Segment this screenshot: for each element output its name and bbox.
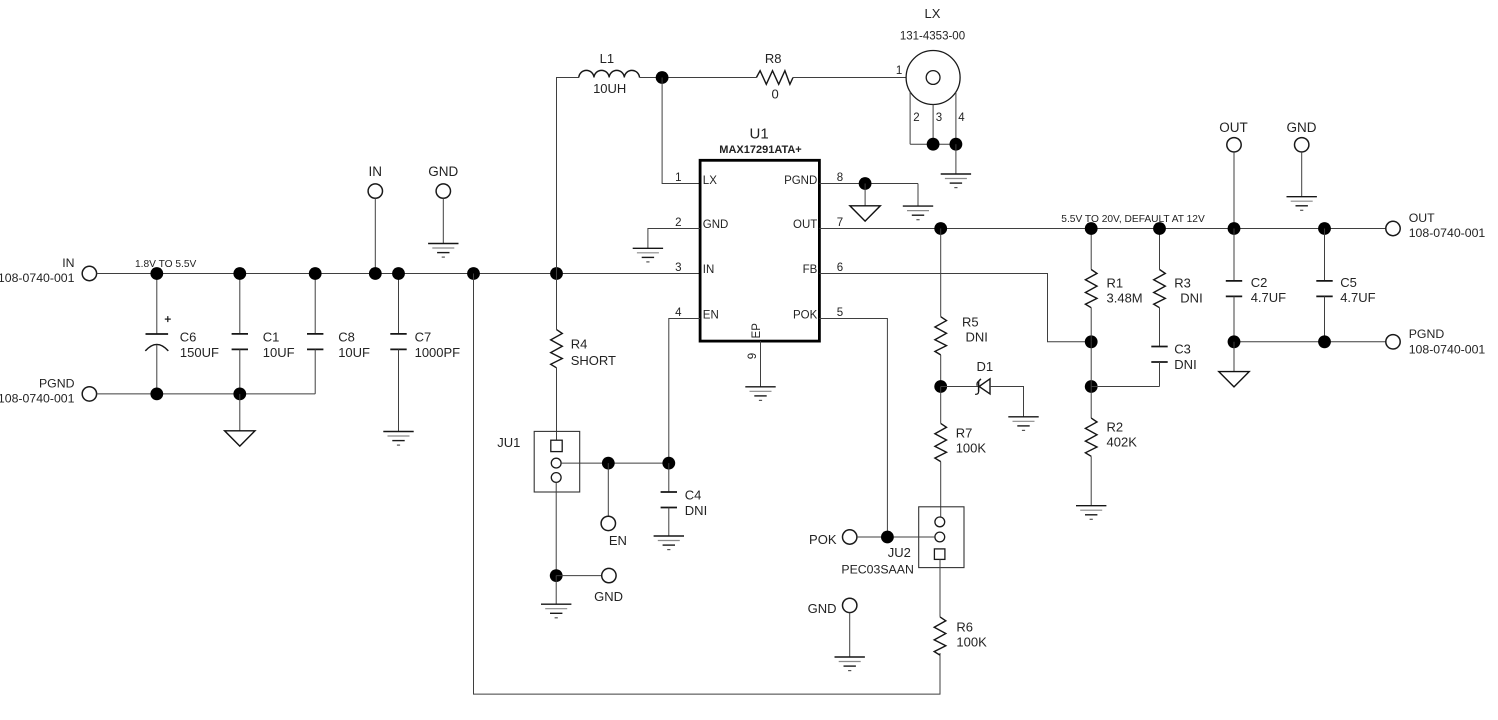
- svg-text:402K: 402K: [1107, 435, 1138, 450]
- svg-text:DNI: DNI: [685, 503, 707, 518]
- svg-text:GND: GND: [808, 601, 837, 616]
- svg-text:2: 2: [913, 112, 919, 124]
- svg-text:6: 6: [837, 262, 843, 274]
- svg-text:9: 9: [747, 353, 759, 359]
- svg-text:GND: GND: [1287, 120, 1317, 135]
- svg-text:PGND: PGND: [784, 175, 817, 187]
- svg-text:LX: LX: [925, 6, 941, 21]
- svg-text:108-0740-001: 108-0740-001: [1409, 342, 1486, 356]
- svg-text:108-0740-001: 108-0740-001: [1409, 226, 1486, 240]
- svg-text:3: 3: [936, 112, 942, 124]
- svg-text:POK: POK: [793, 310, 818, 322]
- svg-text:EP: EP: [751, 323, 763, 339]
- svg-text:POK: POK: [809, 532, 837, 547]
- svg-text:IN: IN: [62, 256, 74, 270]
- svg-text:MAX17291ATA+: MAX17291ATA+: [719, 144, 801, 156]
- svg-text:1: 1: [675, 172, 681, 184]
- svg-text:C6: C6: [180, 330, 197, 345]
- svg-text:GND: GND: [428, 164, 458, 179]
- svg-text:100K: 100K: [956, 635, 987, 650]
- svg-text:5: 5: [837, 307, 843, 319]
- svg-text:OUT: OUT: [1219, 120, 1248, 135]
- svg-text:C1: C1: [263, 330, 280, 345]
- svg-text:10UF: 10UF: [338, 345, 370, 360]
- svg-text:3: 3: [675, 262, 681, 274]
- svg-text:150UF: 150UF: [180, 345, 219, 360]
- svg-text:1: 1: [896, 65, 902, 77]
- svg-text:JU1: JU1: [497, 435, 520, 450]
- svg-text:SHORT: SHORT: [571, 353, 616, 368]
- svg-text:4: 4: [675, 307, 682, 319]
- svg-text:R6: R6: [956, 620, 973, 635]
- svg-text:FB: FB: [803, 264, 818, 276]
- svg-text:108-0740-001: 108-0740-001: [0, 391, 75, 405]
- svg-text:4: 4: [958, 112, 965, 124]
- svg-text:C4: C4: [685, 488, 702, 503]
- svg-text:8: 8: [837, 172, 843, 184]
- svg-text:DNI: DNI: [966, 329, 988, 344]
- svg-text:4.7UF: 4.7UF: [1340, 290, 1375, 305]
- svg-text:OUT: OUT: [793, 219, 817, 231]
- svg-text:7: 7: [837, 217, 843, 229]
- svg-text:DNI: DNI: [1174, 357, 1196, 372]
- svg-text:R2: R2: [1107, 420, 1124, 435]
- svg-text:10UH: 10UH: [593, 81, 626, 96]
- svg-text:3.48M: 3.48M: [1107, 291, 1143, 306]
- svg-text:C8: C8: [338, 330, 355, 345]
- svg-text:LX: LX: [703, 175, 717, 187]
- svg-text:R1: R1: [1107, 276, 1124, 291]
- svg-text:EN: EN: [703, 310, 719, 322]
- svg-text:C3: C3: [1174, 342, 1191, 357]
- svg-text:5.5V TO 20V, DEFAULT AT 12V: 5.5V TO 20V, DEFAULT AT 12V: [1061, 214, 1205, 225]
- svg-text:L1: L1: [600, 51, 614, 66]
- svg-text:R4: R4: [571, 337, 588, 352]
- svg-text:GND: GND: [703, 219, 729, 231]
- svg-text:EN: EN: [609, 533, 627, 548]
- svg-text:IN: IN: [369, 164, 383, 179]
- svg-text:C2: C2: [1251, 275, 1268, 290]
- svg-text:OUT: OUT: [1409, 211, 1435, 225]
- svg-text:R3: R3: [1174, 276, 1191, 291]
- svg-text:DNI: DNI: [1180, 291, 1202, 306]
- svg-text:C5: C5: [1340, 275, 1357, 290]
- svg-text:IN: IN: [703, 264, 715, 276]
- svg-text:R8: R8: [765, 51, 782, 66]
- svg-text:R5: R5: [962, 314, 979, 329]
- svg-text:U1: U1: [750, 126, 769, 143]
- svg-text:GND: GND: [594, 589, 623, 604]
- svg-text:1000PF: 1000PF: [415, 345, 461, 360]
- svg-text:R7: R7: [956, 426, 973, 441]
- svg-text:10UF: 10UF: [263, 345, 295, 360]
- svg-text:1.8V TO 5.5V: 1.8V TO 5.5V: [135, 259, 197, 270]
- svg-text:0: 0: [771, 86, 778, 101]
- svg-text:108-0740-001: 108-0740-001: [0, 271, 75, 285]
- svg-text:100K: 100K: [956, 441, 987, 456]
- svg-text:PGND: PGND: [39, 376, 75, 390]
- svg-text:4.7UF: 4.7UF: [1251, 290, 1286, 305]
- svg-text:JU2: JU2: [888, 545, 911, 560]
- svg-text:131-4353-00: 131-4353-00: [900, 31, 965, 43]
- svg-text:C7: C7: [415, 330, 432, 345]
- svg-text:2: 2: [675, 217, 681, 229]
- svg-text:D1: D1: [977, 359, 994, 374]
- svg-text:PGND: PGND: [1409, 327, 1445, 341]
- svg-text:PEC03SAAN: PEC03SAAN: [841, 563, 913, 577]
